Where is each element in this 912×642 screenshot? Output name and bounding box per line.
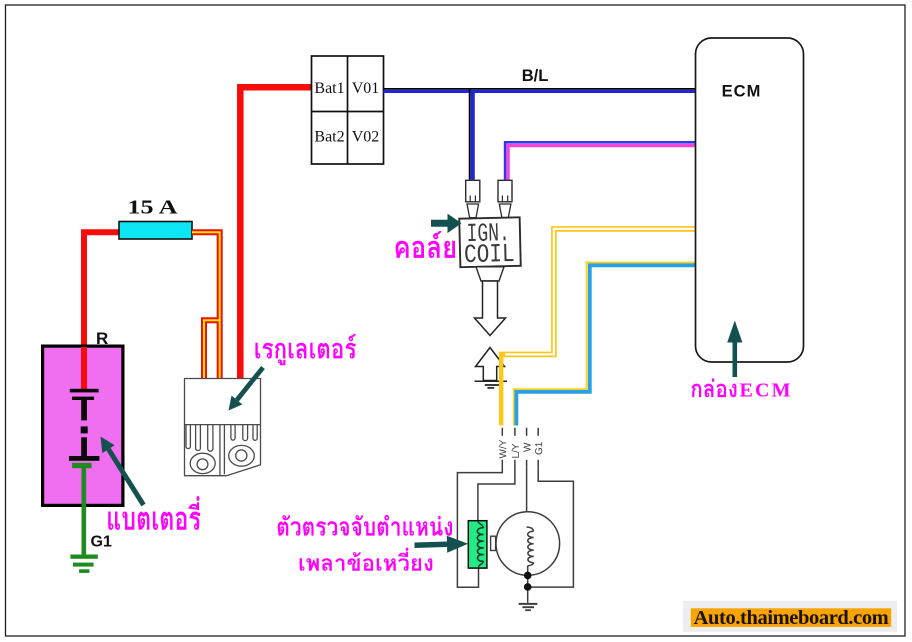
- wire coil to ground: [527, 566, 529, 603]
- label coil (Thai): [396, 231, 455, 258]
- wire W/Y ECM to pickup (yellow/white): [501, 229, 695, 355]
- svg-text:V02: V02: [352, 129, 380, 146]
- spark gap arrow up: [476, 348, 505, 381]
- wire red into battery: [81, 347, 87, 390]
- arrow to regulator: [237, 368, 263, 401]
- svg-text:B/L: B/L: [522, 67, 549, 85]
- wire battery positive to fuse (red): [84, 232, 119, 390]
- ground G1 symbol: [70, 555, 97, 573]
- label CKP sensor line1 (Thai): [278, 515, 452, 536]
- svg-text:ECM: ECM: [740, 379, 793, 401]
- label battery (Thai): [108, 496, 200, 530]
- ground under spark: [475, 381, 508, 388]
- pickup coil box (CKP sensor): [468, 521, 487, 568]
- junction dots: [524, 572, 532, 580]
- svg-text:G1: G1: [91, 534, 112, 551]
- connector J1 Bat1/V01/Bat2/V02: [312, 56, 384, 164]
- svg-text:Bat2: Bat2: [314, 129, 344, 146]
- svg-text:Auto.thaimeboard.com: Auto.thaimeboard.com: [694, 607, 889, 629]
- ignition coil body: [459, 217, 520, 267]
- regulator body: [185, 379, 261, 476]
- wire Bat1 to regulator (red): [240, 87, 311, 378]
- battery B1: [43, 346, 123, 505]
- fuse F1: [119, 222, 192, 240]
- flywheel notch: [491, 536, 496, 550]
- svg-text:ECM: ECM: [722, 83, 762, 101]
- wire drop to ign coil (black/blue): [469, 89, 471, 180]
- wire branch to regulator pin1 (red w/ yellow tracer): [204, 320, 220, 378]
- spark plug stem + arrow down: [476, 267, 504, 281]
- svg-text:15 A: 15 A: [128, 197, 178, 219]
- arrow into ECM: [732, 343, 737, 378]
- svg-text:R: R: [96, 329, 108, 348]
- label regulator (Thai): [255, 334, 356, 366]
- svg-text:V01: V01: [352, 80, 380, 97]
- ign coil connectors: [466, 180, 512, 202]
- wire L/Y to pickup top: [478, 468, 515, 522]
- ECM box U1: [696, 38, 804, 362]
- battery negative green bar: [72, 463, 92, 468]
- wire L/Y ECM to pickup (blue/yellow): [514, 262, 696, 425]
- svg-text:Bat1: Bat1: [314, 80, 344, 97]
- wire W/Y to pickup bottom: [457, 468, 502, 588]
- label ECM box (Thai): [692, 379, 737, 398]
- wire G1 to ground junction: [531, 468, 573, 587]
- arrow to pickup coil: [415, 542, 448, 548]
- generator coil: [527, 527, 534, 531]
- flywheel circle: [496, 512, 560, 576]
- connector dashes: [502, 428, 538, 468]
- watermark Auto.thaimeboard.com: [683, 601, 897, 632]
- arrow to battery: [109, 449, 144, 505]
- wire fuse to regulator (red w/ yellow tracer): [192, 232, 220, 378]
- wire W to gen coil: [526, 468, 528, 528]
- wire ECM to coil (blue/pink): [505, 142, 695, 179]
- label CKP sensor line2 (Thai): [300, 548, 433, 571]
- ground under generator: [519, 604, 538, 610]
- battery cell symbol: [69, 389, 99, 461]
- wire B/L to ECM (black/blue): [384, 88, 696, 90]
- pin labels W/Y L/Y W G1: [499, 440, 542, 459]
- wire battery to ground G1 (green): [82, 466, 87, 555]
- arrow to ign coil: [431, 220, 448, 227]
- ign coil necks: [467, 204, 511, 218]
